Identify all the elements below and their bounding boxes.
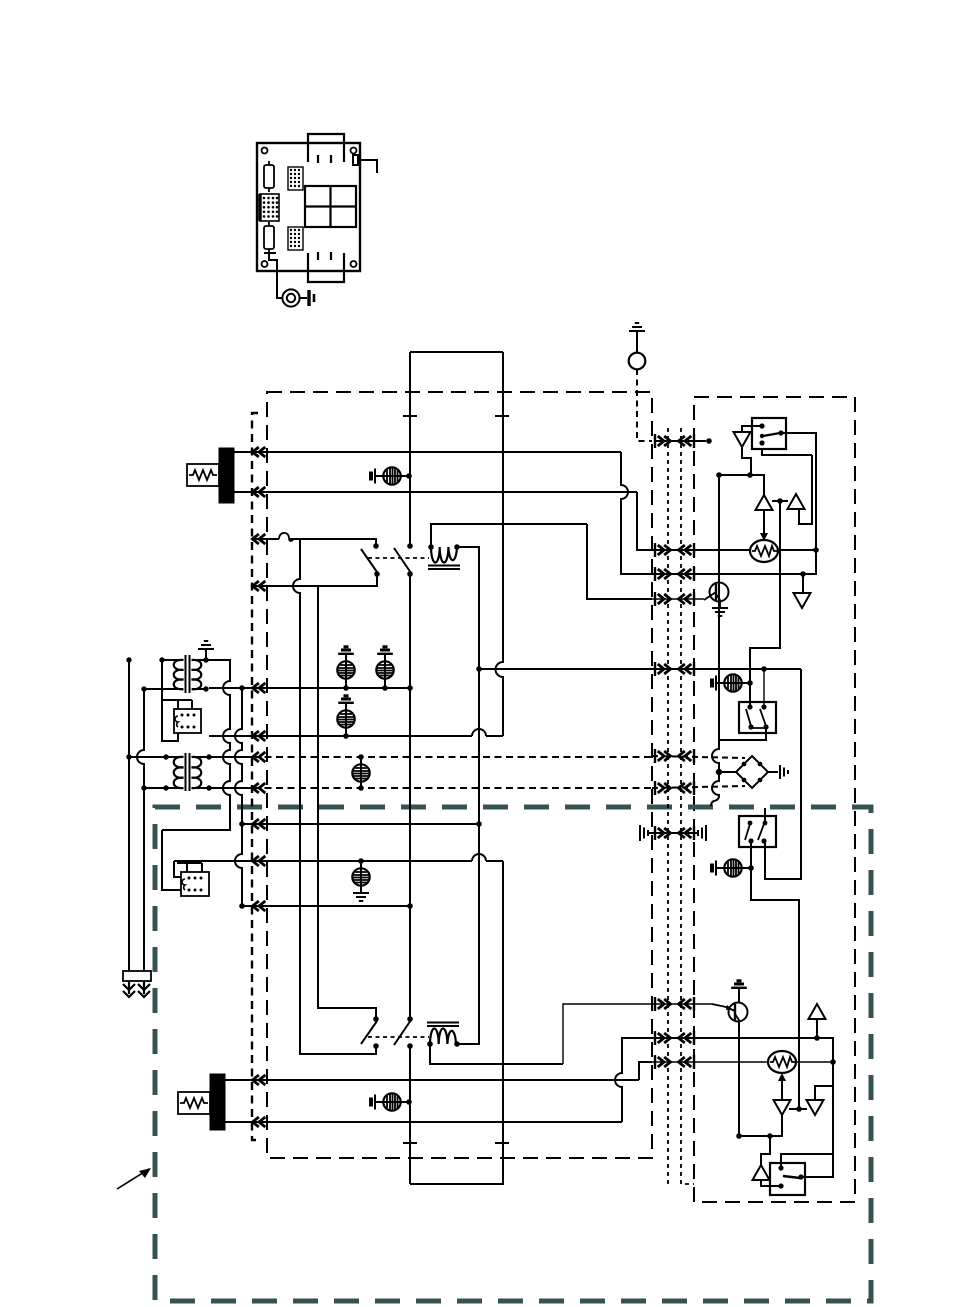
inductor L2 core	[427, 1023, 459, 1027]
lamp LP4 (row737 area)	[337, 710, 354, 727]
rheostat RH2 arrowhead	[778, 1073, 786, 1081]
left connector chevrons column	[253, 447, 266, 457]
wire K3 right top contact riser	[763, 669, 765, 707]
off-page arrow A1	[123, 981, 135, 997]
lamp LP2 B+ tick	[338, 647, 354, 659]
wire U3 base to K5 lower contact	[761, 1180, 781, 1186]
wire row 452 (SP1+ to body row 574)	[234, 451, 621, 453]
lamp LP1 (row476)	[383, 467, 400, 484]
node dot lamp LP8	[747, 680, 753, 686]
left rail wire x144 with hump over row757	[137, 689, 144, 971]
IC U10 pin dots	[181, 714, 196, 729]
wire riser x563 to row 1004	[563, 1004, 652, 1064]
PCB mounting hole bottom-left	[262, 261, 268, 267]
T1 secondary stubs	[192, 660, 206, 689]
lamp LP7 terminal mark	[371, 1095, 375, 1110]
switch SW2 contact dots	[407, 543, 413, 577]
wire K4 left contact down	[751, 841, 799, 1110]
rheostat RH2	[768, 1051, 796, 1073]
transformer T1 core	[186, 655, 190, 693]
wire row 550	[652, 549, 816, 551]
left rail wire x129	[128, 660, 130, 971]
wire row 1080 (SP2+)	[225, 1079, 639, 1081]
wire K5 top contact riser	[781, 1154, 833, 1168]
antenna dashed lead	[637, 369, 652, 441]
wire relay K4 top riser from boundary	[764, 808, 766, 823]
lamp LP3 stems	[384, 653, 386, 688]
triangle U4 connector up	[809, 1004, 826, 1019]
bridge rectifier BR1	[719, 756, 778, 788]
relay K5 contacts	[778, 1165, 803, 1188]
wire U4 stem	[816, 1019, 818, 1038]
wire row 1062 left link	[430, 1044, 563, 1064]
relay K5 arm	[783, 1176, 800, 1178]
wire row 688 (lamps row)	[209, 687, 410, 689]
bridge ground	[780, 765, 788, 779]
PCB mounting hole top-right	[351, 148, 357, 154]
wire row 1004 thin	[652, 1003, 712, 1005]
wire vertical x621 with hump over row492	[621, 452, 652, 574]
switch SW4	[394, 1020, 411, 1045]
PCB dot grid J2 top	[288, 167, 303, 190]
rheostat RH1	[750, 540, 778, 562]
node dot lamp LP9	[748, 865, 754, 871]
junction dots middle buses	[239, 666, 482, 909]
wire V1 apex to node row455	[742, 447, 751, 475]
switch SW1 contact dots	[373, 543, 380, 577]
triangle D2 connector down	[807, 1100, 824, 1115]
lamp LP3 (row688 right)	[376, 661, 393, 678]
PCB bottom connector shell	[308, 253, 344, 282]
lamp LP5 junction dots	[358, 754, 364, 791]
lamp LP9	[724, 859, 741, 876]
wire node row 1136	[739, 1135, 770, 1137]
callout arrow to teal box	[117, 1168, 151, 1189]
inductor L1 terminal dots	[428, 544, 460, 550]
node dot U4 stem	[814, 1035, 820, 1041]
PCB relay block K1 (quad box)	[305, 186, 356, 227]
triangle U1 connector up	[756, 495, 773, 510]
IC U11 pin dots	[188, 877, 203, 892]
node dot row 441	[706, 438, 712, 444]
wire crossing tick bottom-left	[403, 1142, 417, 1144]
node dot row 574	[800, 571, 806, 577]
wire row 1062 from speaker upper row	[639, 1062, 652, 1080]
wire crossing tick top-right	[495, 415, 509, 417]
relay K4 levers	[745, 824, 764, 840]
wire row 539 with splice squiggle	[253, 539, 376, 546]
wire bus x410 lower	[409, 1046, 411, 1184]
lamp LP2 junction dot	[343, 685, 349, 691]
wire x812 loop to U2	[799, 455, 812, 524]
node dot row 550 right	[813, 547, 819, 553]
wire row 1038 from speaker lower row	[615, 1038, 652, 1122]
wire vertical D x242 with humps	[235, 688, 242, 906]
wire row 788 dashed segment	[253, 787, 652, 789]
relay K2 box	[752, 418, 786, 449]
PCB dot grid J3 bottom	[288, 227, 303, 250]
wire bus x410 middle	[409, 574, 411, 1019]
PCB top connector shell	[308, 134, 344, 162]
lamp LP7 wires and dot	[375, 1101, 409, 1103]
speaker SP2 magnet	[210, 1074, 225, 1130]
transistor Q2 B+ tick	[731, 981, 747, 993]
PCB crystal component Y1 top right	[353, 155, 358, 165]
lamp LP3 B+ tick	[377, 647, 393, 659]
connector column dotted line C2b	[681, 428, 694, 1184]
splice squiggle row 539	[279, 533, 293, 541]
relay K5 box	[770, 1163, 805, 1195]
node dots row 475	[716, 472, 753, 478]
wire D2 stem	[815, 1086, 833, 1101]
T2 secondary stubs	[192, 757, 209, 788]
wire row 756 dashed right	[652, 756, 745, 758]
node dot row669 K3	[761, 666, 767, 672]
wire vertical x637	[637, 492, 652, 550]
relay K2 arm	[763, 433, 780, 436]
node dot D1D2 link	[796, 1106, 802, 1112]
bus top link row 352	[410, 351, 503, 353]
PCB mounting hole bottom-right	[351, 261, 357, 267]
PCB wire to antenna ring	[264, 253, 283, 298]
PCB antenna ring terminal	[282, 289, 307, 306]
PCB resistor component R2	[264, 222, 274, 253]
IC U10 internal coil	[175, 716, 178, 727]
PCB left connector grid J1	[260, 194, 279, 221]
triangle V1 connector down	[734, 432, 751, 447]
rheostat RH1 arrowhead	[760, 533, 768, 541]
wire vertical x300 (SW3 lower feed) with hump over row586	[293, 539, 376, 1054]
transistor Q1 ground	[712, 608, 728, 616]
rheostat RH2 stem to D1	[781, 1079, 783, 1101]
transistor Q2	[712, 1003, 748, 1023]
wire vertical x318 (SW3 upper feed)	[318, 586, 376, 1019]
wire vertical C x230 with humps	[162, 660, 230, 830]
wire x833 down to K5	[801, 1062, 833, 1177]
switch SW1	[361, 549, 377, 572]
lamp LP8 terminal mark	[712, 676, 716, 691]
lamp LP5 (between dashed rows)	[352, 764, 369, 781]
wire row 788 dashed right	[652, 786, 745, 788]
rheostat RH1 arrow stem	[763, 509, 765, 536]
transformer T1 secondary winding	[192, 660, 202, 689]
wire row1136 to U3	[761, 1136, 770, 1165]
relay K3 contacts	[747, 704, 768, 729]
lamp LP2 (row688 left)	[337, 661, 354, 678]
PCB control module board outline	[257, 143, 360, 271]
wire vertical x479 (L1 right to L2 right)	[457, 547, 479, 1044]
wire row 861	[174, 860, 503, 862]
wire x801 row669 to relay K4	[765, 669, 801, 879]
wire row 736	[209, 735, 503, 737]
IC module U11 box	[181, 872, 209, 896]
relay K3 levers	[746, 709, 766, 728]
wire D1 D2 link	[789, 1108, 807, 1110]
inductor L1 winding	[431, 547, 457, 563]
inductor L2 winding	[430, 1029, 456, 1045]
lamp LP4 junction dot	[343, 733, 349, 739]
T1 ground symbol	[198, 641, 214, 660]
wire row 906	[242, 905, 410, 907]
wire crossing tick top-left	[403, 415, 417, 417]
wire x719 upper	[718, 475, 720, 740]
lamp LP2 stems	[345, 653, 347, 688]
node dot bridge left	[716, 769, 722, 775]
wire V1 to K2 top contact	[742, 426, 762, 432]
module dashed box left (instrument cluster)	[267, 392, 652, 1158]
IC module U10 box	[174, 709, 201, 733]
transformer T2 primary winding	[174, 757, 184, 788]
node dot link U1U2	[777, 498, 783, 504]
switch SW2	[394, 548, 411, 573]
wire vertical x587	[587, 524, 652, 599]
wire row 574	[652, 550, 816, 574]
wire row 492 (SP1- )	[234, 491, 637, 493]
wire row 757 dashed segment	[253, 756, 652, 758]
wire node row 455	[762, 449, 812, 455]
wire row 475	[719, 475, 764, 495]
connector column dotted line C2a	[667, 428, 669, 1184]
triangle U2 connector up	[788, 494, 805, 509]
off-page arrow A2	[138, 981, 150, 997]
lamp LP5 stems	[360, 757, 362, 788]
wire row 824	[242, 823, 479, 825]
fuse box bottom left	[123, 971, 151, 981]
relay K4 box	[739, 816, 776, 847]
hump of row861 over x479	[472, 854, 486, 861]
PCB mounting hole top-left	[262, 148, 268, 154]
wire row 441 stub	[655, 440, 706, 442]
switch SW4 contact dots	[407, 1016, 413, 1049]
inductor L2 terminal dots	[427, 1041, 460, 1047]
wire Q2 collector down	[738, 1022, 740, 1136]
lamp LP8 wires	[716, 682, 750, 684]
PCB resistor component R1	[264, 161, 274, 192]
wire x503 lower segment	[410, 861, 503, 1184]
triangle V3 connector down	[794, 593, 811, 608]
triangle D1 connector down	[774, 1100, 791, 1115]
lamp LP4 stems	[345, 702, 347, 736]
switch SW3 contact dots	[373, 1016, 379, 1049]
wire row 757 solid left	[209, 756, 253, 758]
T2 primary stubs	[129, 757, 183, 788]
speaker SP1 coil box with resistor	[187, 464, 219, 486]
IC U11 internal coil	[182, 879, 185, 890]
hump of row736 over x479	[472, 729, 486, 736]
T1 primary stubs	[144, 660, 183, 689]
wire x503 upper segment with hump over row669	[496, 352, 503, 736]
PCB antenna ground mark	[309, 290, 314, 306]
wire row 788 solid left	[209, 787, 253, 789]
node dot row 1062 right	[830, 1059, 836, 1065]
wire crossing tick bottom-right	[495, 1142, 509, 1144]
ground left of row 833	[640, 825, 698, 841]
transformer T2 secondary winding	[192, 757, 202, 788]
wire bridge node to module boundary	[711, 772, 719, 806]
lamp LP6 ground	[353, 893, 369, 901]
wire row 586 (switch SW1 lower)	[253, 574, 377, 586]
lamp LP8	[724, 674, 741, 691]
wire row 524 (inductor L1 to row 599)	[431, 524, 587, 547]
lamp LP1 terminal mark	[371, 469, 375, 484]
relay K2 contacts	[759, 423, 783, 445]
teal dashed box (door harness boundary)	[155, 807, 871, 1301]
lamp LP6 (row861)	[352, 868, 369, 885]
lamp LP9 wires	[716, 867, 750, 869]
transformer T1 primary winding	[174, 660, 184, 689]
wire K2 right contact to x816	[781, 433, 816, 550]
wire row 599 stub	[652, 598, 704, 600]
ground symbol top (antenna)	[629, 323, 645, 331]
switch SW3	[361, 1021, 377, 1044]
speaker SP2 coil box with resistor	[178, 1092, 210, 1114]
antenna stem	[636, 331, 638, 353]
node dots row 1136	[736, 1133, 773, 1139]
wire D1 apex to node row 1136	[770, 1115, 782, 1136]
wire row 1122 (SP2-)	[225, 1121, 622, 1123]
transistor Q2 tick stem	[738, 993, 740, 1002]
lamp LP3 junction dot	[382, 685, 388, 691]
IC U11 wrap wiring	[162, 830, 202, 890]
wire row 1062 thin	[652, 1061, 833, 1063]
lamp LP7 (row1102)	[383, 1093, 400, 1110]
lamp LP9 terminal mark	[712, 861, 716, 876]
wire K3 exit to bridge	[712, 728, 766, 772]
antenna circle	[629, 353, 646, 370]
inductor L1 core	[428, 566, 460, 570]
IC U10 wrap wiring	[162, 660, 192, 741]
wire V3 stem	[802, 574, 803, 593]
wire row 1038	[652, 1038, 833, 1062]
ground right of row 833	[698, 825, 706, 841]
lamp LP1 wires and dot	[375, 475, 409, 477]
junction dots transformer area	[126, 657, 211, 790]
PCB top connector pins	[318, 155, 331, 163]
connector boundary dashed line C1 (left)	[252, 413, 258, 1140]
wire bus x410 upper	[409, 352, 411, 546]
speaker SP1 magnet	[219, 448, 234, 503]
wire x780 down to relay K3	[750, 501, 780, 707]
PCB bottom connector pins	[318, 252, 331, 260]
relay K3 box	[739, 702, 776, 733]
wire row 669 (x479 to radio)	[479, 668, 801, 670]
wire link U1 U2	[772, 500, 788, 502]
PCB wire from Y1	[358, 160, 377, 173]
lamp LP6 stems	[360, 861, 362, 893]
lamp LP6 junction dot	[358, 858, 364, 864]
relay K4 contacts	[748, 821, 768, 844]
lamp LP4 B+ tick	[338, 696, 354, 708]
module dashed box right (radio unit)	[694, 397, 855, 1202]
switch gang dotted link top	[368, 557, 429, 559]
transformer T2 core	[186, 753, 190, 791]
triangle U3 connector up	[753, 1165, 770, 1180]
transistor Q1	[704, 583, 729, 609]
connector face bars right column	[655, 434, 694, 1069]
switch gang dotted link bottom	[368, 1036, 429, 1038]
